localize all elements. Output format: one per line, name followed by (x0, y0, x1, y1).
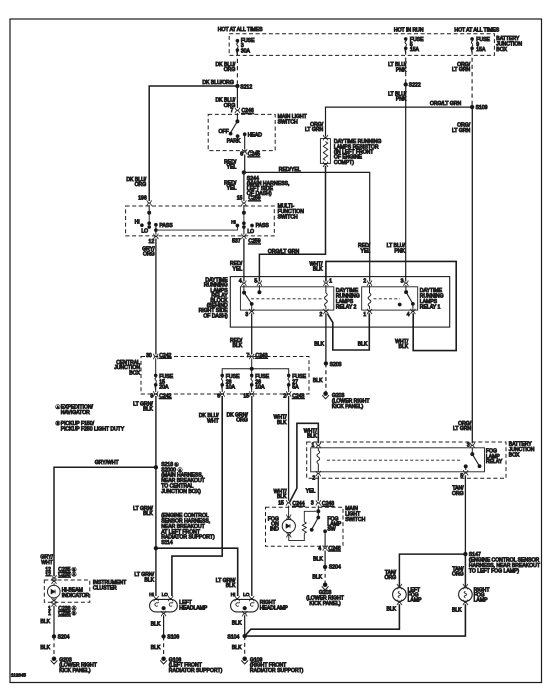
wire BLK relay 2 pin 2 to splice S203 (325, 313, 327, 362)
svg-text:LO: LO (162, 592, 169, 597)
wire WHT/BLK branch to fog lamp relay pin 1 (289, 423, 318, 502)
wire LT BLU/PNK fuse 5 to splice S222 (dashed) (405, 50, 407, 82)
splice S203 (324, 362, 327, 365)
svg-text:15: 15 (278, 501, 284, 507)
contact PARK (236, 135, 239, 138)
wire LT GRN/BLK pin 9 to left headlamp HI (155, 396, 157, 596)
svg-text:12: 12 (149, 239, 155, 245)
svg-text:BLK: BLK (232, 621, 242, 627)
splice S218 (154, 466, 157, 469)
svg-text:2: 2 (283, 394, 286, 400)
relay 1 switch (405, 285, 407, 292)
svg-text:C235: C235 (58, 611, 70, 617)
svg-text:BLK: BLK (151, 645, 161, 651)
ground G106 (left front radiator support) (160, 657, 167, 664)
CJB internal wire pin 30 to fuse 15 (155, 359, 157, 376)
splice S147 (464, 552, 467, 555)
main light switch armature to OFF (231, 121, 238, 132)
svg-text:196: 196 (138, 196, 147, 202)
battery junction box (top) (229, 34, 494, 56)
svg-text:HEAD: HEAD (248, 133, 262, 139)
svg-text:ORG: ORG (452, 491, 464, 497)
svg-text:HI: HI (231, 592, 236, 597)
svg-text:2: 2 (363, 278, 366, 284)
contact HEAD (243, 133, 246, 136)
svg-text:LT GRN: LT GRN (305, 127, 324, 133)
relay 2 pin 5 contact (258, 285, 260, 292)
svg-text:RADIATOR SUPPORT): RADIATOR SUPPORT) (169, 668, 223, 674)
instrument cluster box (44, 580, 90, 602)
svg-text:HOT AT ALL TIMES: HOT AT ALL TIMES (454, 28, 499, 34)
wire DK BLU/WHT pin 6 to left headlamp LO (172, 396, 222, 596)
svg-text:YEL: YEL (233, 266, 243, 272)
svg-text:C246: C246 (242, 108, 254, 114)
svg-text:PNK: PNK (396, 67, 407, 73)
relay 1 floating contact (398, 303, 401, 306)
splice S222 (404, 83, 407, 86)
svg-text:BLK: BLK (232, 645, 242, 651)
wire DK BLU/ORG S212 to main light switch pin 7 (236, 86, 238, 108)
ground G203 (lower right kick panel) (322, 392, 329, 399)
svg-text:BLK: BLK (277, 494, 287, 500)
svg-text:BLK: BLK (399, 344, 409, 350)
svg-text:HOT IN RUN: HOT IN RUN (394, 28, 424, 34)
svg-text:C238: C238 (58, 572, 70, 578)
svg-text:JUNCTION BOX): JUNCTION BOX) (161, 489, 201, 495)
svg-text:15: 15 (243, 393, 249, 399)
svg-text:SWITCH: SWITCH (278, 214, 298, 220)
svg-text:S204: S204 (58, 635, 70, 641)
svg-text:S203: S203 (330, 362, 342, 368)
wire BLK S106 to G106 (dashed) (163, 636, 165, 656)
splice S104 (243, 634, 246, 637)
svg-text:SW: SW (327, 527, 335, 533)
svg-text:15A: 15A (410, 47, 420, 53)
fog relay mechanical link (dashed) (327, 459, 461, 461)
svg-text:INDICATOR: INDICATOR (62, 593, 90, 599)
battery junction box (fog lamp relay) (307, 442, 506, 478)
svg-text:ORG: ORG (452, 572, 464, 578)
svg-text:5A: 5A (292, 385, 299, 391)
svg-text:PNK: PNK (396, 97, 407, 103)
svg-text:3: 3 (401, 278, 404, 284)
daytime running lamps relay 1 box (362, 287, 418, 310)
svg-text:LT GRN: LT GRN (453, 426, 472, 432)
svg-text:HI: HI (149, 592, 154, 597)
wire TAN/ORG S147 to left fog lamp (399, 554, 465, 586)
wire HEAD contact to pin 6 (244, 134, 246, 149)
svg-text:ORG: ORG (224, 67, 236, 73)
svg-text:S114: S114 (161, 540, 173, 546)
multi-function switch right pivot (243, 205, 245, 213)
main light switch common feed (236, 113, 238, 121)
svg-text:BOX: BOX (496, 47, 507, 53)
svg-text:ORG: ORG (236, 418, 248, 424)
relay 2 pin 2 connector (324, 309, 329, 314)
left contact PASS (155, 223, 158, 226)
wire relay 2 pin 3 internal (251, 304, 253, 310)
splice S114 (154, 547, 157, 550)
svg-text:2: 2 (312, 475, 315, 481)
svg-text:HEADLAMP: HEADLAMP (260, 605, 289, 611)
pin 2 connector C243 (288, 385, 290, 392)
wire DK GRN/ORG pin 15 to right headlamp LO (251, 396, 253, 596)
wire GRY/WHT S218 to instrument cluster (54, 467, 156, 576)
fog lamp relay box (311, 448, 485, 472)
svg-text:LO: LO (247, 229, 254, 235)
svg-text:7: 7 (230, 108, 233, 114)
svg-text:3: 3 (245, 312, 248, 318)
svg-text:BLK: BLK (358, 342, 368, 348)
svg-text:BLK: BLK (314, 342, 324, 348)
wire BLK pin 4 to S204 (324, 551, 326, 567)
svg-text:BLK: BLK (307, 434, 317, 440)
pin 6 connector C243 (221, 385, 223, 392)
svg-text:S222: S222 (409, 83, 421, 89)
svg-text:BLK: BLK (144, 577, 154, 583)
svg-text:BLK: BLK (143, 407, 153, 413)
svg-text:LO: LO (141, 228, 148, 234)
wire ORG/LT GRN fuse 9 to splice S109 (dashed) (471, 50, 473, 105)
relay 1 pin 1 connector (367, 309, 372, 314)
wire ORG/LT GRN S109 to fog lamp relay pin 3 (471, 107, 473, 443)
wire BLK S204 to G203 (dashed, right) (324, 567, 326, 583)
daytime running lamps relay block outer box (230, 277, 449, 328)
main light switch (fog section) box (266, 507, 344, 546)
svg-text:HI: HI (135, 220, 140, 226)
left contact LO (148, 226, 151, 229)
fog lamp switch output contact (324, 530, 327, 533)
svg-text:WHT: WHT (41, 560, 53, 566)
svg-text:BLK: BLK (313, 378, 323, 384)
wire BLK relay 1 pin 1 to relay 2 pin 2 (link) (328, 313, 370, 350)
svg-text:1: 1 (48, 611, 51, 617)
left fog lamp (393, 584, 407, 605)
svg-text:RELAY 1: RELAY 1 (420, 304, 441, 310)
splice S204 (left) (52, 635, 55, 638)
fuse 28 10A (221, 374, 224, 389)
svg-text:LO: LO (243, 592, 250, 597)
svg-text:5: 5 (460, 474, 463, 480)
svg-text:2: 2 (320, 312, 323, 318)
splice S212 (236, 84, 239, 87)
svg-text:10A: 10A (226, 385, 236, 391)
svg-text:NAVIGATOR: NAVIGATOR (61, 410, 90, 416)
CJB internal bus pin 7 to fuses (251, 359, 253, 376)
svg-text:CLUSTER: CLUSTER (93, 586, 117, 592)
svg-text:HOT AT ALL TIMES: HOT AT ALL TIMES (218, 27, 263, 33)
indicator bottom connector (286, 532, 291, 537)
svg-text:BLK: BLK (226, 583, 236, 589)
fuse 15 20A (154, 374, 157, 389)
right contact PASS (251, 224, 254, 227)
svg-text:RED/YEL: RED/YEL (279, 167, 301, 173)
daytime running lamps relay 2 box (240, 287, 333, 310)
wire BLK left headlamp to S106 (163, 615, 165, 636)
svg-text:C248: C248 (328, 546, 340, 552)
svg-text:PASS: PASS (256, 223, 270, 229)
svg-text:LAMP: LAMP (408, 598, 422, 604)
svg-text:C242: C242 (159, 393, 171, 399)
left headlamp (150, 596, 178, 616)
wire BLK right fog lamp to S104 (245, 604, 466, 636)
svg-text:C243: C243 (292, 393, 304, 399)
svg-text:OFF: OFF (219, 129, 229, 135)
ground G203 (fog switch instance) (322, 583, 329, 590)
svg-text:1: 1 (329, 278, 332, 284)
central junction box (141, 357, 309, 395)
svg-text:S104: S104 (227, 634, 239, 640)
svg-text:C259: C259 (248, 239, 260, 245)
wire LT BLU/PNK S222 to relay 1 pin 3 (405, 85, 407, 282)
svg-text:KICK PANEL): KICK PANEL) (309, 601, 341, 607)
svg-text:PASS: PASS (159, 223, 173, 229)
wire WHT/BLK relay 2 pin 1 to relay 1 pin 4 (loop) (326, 261, 456, 350)
svg-text:BLK: BLK (233, 343, 243, 349)
svg-text:PNK: PNK (394, 248, 405, 254)
svg-text:BLK: BLK (313, 267, 323, 273)
svg-text:9: 9 (150, 393, 153, 399)
svg-text:KICK PANEL): KICK PANEL) (332, 404, 364, 410)
fuse 3 30A (236, 39, 239, 54)
svg-text:YEL: YEL (361, 248, 371, 254)
svg-text:RELAY 2: RELAY 2 (336, 304, 357, 310)
wire RED/BLK relay 2 pin 3 to central junction box pin 7 (251, 313, 253, 354)
multi-function switch left armature (148, 213, 150, 224)
wire PASS contact to pin 12 (155, 225, 157, 235)
wire RED/YEL S244 to multi-function switch pin 15 (243, 172, 245, 201)
pin 9 connector C242 (155, 385, 157, 392)
splice S106 (162, 635, 165, 638)
relay 1 pin 4 connector (411, 309, 416, 314)
svg-text:YEL: YEL (306, 488, 316, 494)
svg-text:BLK: BLK (143, 511, 153, 517)
multi-function switch right armature (243, 213, 245, 224)
svg-text:4: 4 (318, 546, 321, 552)
svg-text:LAMP: LAMP (474, 598, 488, 604)
relay 2 switch (243, 285, 245, 292)
wire BLK cluster to S204 (53, 606, 55, 637)
wire DK BLU/ORG fuse 3 to splice S212 (dashed) (236, 52, 238, 84)
wire BLK S204 to G203 (dashed) (53, 636, 55, 656)
splice S204 (right) (323, 565, 326, 568)
wire LT GRN/BLK S114 to right headlamp HI (156, 548, 238, 596)
fuse 9 15A (471, 38, 474, 53)
indicator to resistor wire (289, 533, 305, 541)
relay 1 coil (369, 285, 371, 293)
legend note B pickup (56, 421, 60, 426)
svg-text:BLK: BLK (452, 608, 462, 614)
svg-text:YEL: YEL (227, 186, 237, 192)
svg-text:SWITCH: SWITCH (278, 119, 298, 125)
svg-text:C244: C244 (292, 501, 304, 507)
fog relay pin 5 connector (463, 470, 468, 475)
svg-text:BOX: BOX (129, 371, 140, 377)
wire relay 1 pin 4 internal (412, 304, 414, 310)
svg-text:20A: 20A (159, 385, 169, 391)
svg-text:BLK: BLK (386, 607, 396, 613)
left contact HI (141, 224, 144, 227)
wire WHT/BLK pin 2 C243 to C244 pin 15 (288, 396, 290, 501)
indicator top connector (286, 515, 291, 520)
svg-text:C245: C245 (248, 152, 260, 158)
svg-text:ORG: ORG (135, 182, 147, 188)
svg-text:1: 1 (312, 442, 315, 448)
relay 2 mechanical link (dashed) (251, 298, 323, 300)
pin 15 connector C243 (251, 385, 253, 392)
wire right LO to pin 537 (243, 227, 245, 235)
wire GRY/ORG pin 12 to central junction box pin 30 (155, 239, 157, 355)
wire ORG/LT GRN resistor to relay 2 pin 5 (259, 166, 325, 282)
svg-text:537: 537 (232, 239, 241, 245)
svg-text:HI: HI (231, 220, 236, 225)
fog relay coil (317, 448, 319, 451)
svg-text:C248: C248 (322, 501, 334, 507)
wire BLK right headlamp to S104 (244, 615, 246, 636)
svg-text:S109: S109 (476, 105, 488, 111)
right headlamp (231, 596, 259, 616)
wire YEL fog relay pin 2 to C248 pin 3 (317, 476, 319, 501)
svg-text:ORG: ORG (384, 575, 396, 581)
svg-text:IND: IND (270, 527, 279, 533)
svg-text:OF DASH): OF DASH) (203, 313, 228, 319)
svg-text:7: 7 (246, 353, 249, 359)
relay 1 mechanical link (dashed) (374, 298, 401, 300)
svg-text:PARK: PARK (227, 139, 241, 145)
svg-text:1: 1 (363, 312, 366, 318)
svg-text:C259: C259 (248, 196, 260, 202)
multi-function switch left pivot (148, 205, 150, 213)
svg-text:BLK: BLK (40, 645, 50, 651)
wire RED/YEL pin 537 to relay 2 pin 4 (243, 239, 245, 282)
wire ORG/LT GRN S109 to DRL resistor (326, 107, 473, 136)
ground G203 (left instance) (51, 657, 58, 664)
svg-text:SWITCH: SWITCH (345, 517, 365, 523)
wire BLK S203 to G203 (dashed) (325, 363, 327, 391)
right fog lamp (459, 584, 473, 605)
svg-text:PICKUP F250 LIGHT DUTY: PICKUP F250 LIGHT DUTY (61, 426, 125, 432)
svg-text:BOX: BOX (509, 453, 520, 459)
relay 2 coil (325, 285, 327, 293)
svg-text:4: 4 (407, 312, 410, 318)
relay 2 pin 3 connector (249, 309, 254, 314)
svg-text:C242: C242 (159, 353, 171, 359)
wire BLK left fog lamp to S104 (245, 604, 400, 636)
svg-text:BLK: BLK (312, 574, 322, 580)
svg-text:ORG: ORG (143, 252, 155, 258)
svg-text:112845: 112845 (11, 672, 26, 677)
svg-text:LT GRN: LT GRN (452, 128, 471, 134)
svg-text:C243: C243 (255, 353, 267, 359)
wire TAN/ORG fog relay pin 5 to S147 (464, 475, 466, 554)
hi-beam indicator lamp (48, 583, 61, 600)
svg-text:30A: 30A (241, 48, 251, 54)
svg-text:TO LEFT FOG LAMP): TO LEFT FOG LAMP) (469, 568, 519, 574)
svg-text:6: 6 (240, 152, 243, 158)
fuse 26 10A (250, 374, 253, 389)
svg-text:S106: S106 (167, 635, 179, 641)
svg-text:S204: S204 (329, 565, 341, 571)
svg-text:10A: 10A (255, 385, 265, 391)
svg-text:BLK: BLK (313, 557, 323, 563)
svg-text:15A: 15A (476, 47, 486, 53)
splice S109 (470, 105, 473, 108)
svg-text:DK BLU/ORG: DK BLU/ORG (202, 80, 233, 86)
svg-text:12: 12 (45, 572, 51, 578)
multi-function switch box (126, 206, 275, 236)
resistor to switch node wire (304, 511, 316, 522)
wire switch output to pin 4 (324, 531, 326, 546)
fuse 5 15A (404, 38, 407, 53)
splice S244 (242, 171, 245, 174)
svg-text:YEL: YEL (227, 165, 237, 171)
svg-text:30: 30 (146, 353, 152, 359)
svg-text:COMPT): COMPT) (334, 160, 354, 166)
svg-text:ORG/LT GRN: ORG/LT GRN (430, 101, 462, 107)
svg-text:WHT: WHT (207, 418, 219, 424)
fog relay pin 2 connector (316, 471, 321, 476)
right contact HI (236, 224, 239, 227)
wire BLK S104 to G109 (dashed) (244, 636, 246, 657)
svg-text:4: 4 (239, 278, 242, 284)
wire RED/YEL S244 to relay 1 pin 2 (244, 172, 370, 281)
svg-text:S212: S212 (240, 84, 252, 90)
svg-text:RADIATOR SUPPORT): RADIATOR SUPPORT) (250, 668, 304, 674)
right contact LO (243, 226, 246, 229)
svg-text:BLK: BLK (40, 619, 50, 625)
fog switch resistor (302, 522, 306, 534)
svg-text:BLK: BLK (151, 621, 161, 627)
fog lamp switch armature (312, 518, 319, 530)
svg-text:ORG/LT GRN: ORG/LT GRN (268, 249, 300, 255)
svg-text:3: 3 (467, 442, 470, 448)
legend note A expedition/navigator (56, 405, 60, 410)
main light switch box (208, 114, 275, 150)
svg-text:LT GRN: LT GRN (452, 67, 471, 73)
fog on indicator lamp (282, 519, 295, 532)
daytime running lamps resistor R1 (320, 135, 330, 167)
svg-text:RELAY: RELAY (486, 459, 503, 465)
svg-text:GRY/WHT: GRY/WHT (95, 460, 119, 466)
svg-text:BLK: BLK (277, 420, 287, 426)
fuse 27 5A (287, 374, 290, 389)
wire C244 to indicator (288, 506, 290, 520)
wire RED/YEL C245 to splice S244 (244, 155, 246, 173)
link wire left PASS to right HI (156, 226, 238, 231)
ground G109 (right front radiator support) (241, 657, 248, 664)
svg-text:HEADLAMP: HEADLAMP (179, 605, 208, 611)
svg-text:KICK PANEL): KICK PANEL) (59, 668, 91, 674)
pin 196 connector C259 (147, 200, 152, 205)
fog lamp switch node (317, 506, 319, 518)
wire TAN/ORG S147 to right fog lamp (464, 554, 466, 586)
wire DK BLU/ORG S212 to multi-function switch pin 196 (149, 86, 237, 201)
cluster lower connectors (52, 598, 57, 603)
fog relay switch (471, 448, 473, 455)
svg-text:3: 3 (311, 501, 314, 507)
fog relay pin 5 contact (464, 465, 467, 468)
